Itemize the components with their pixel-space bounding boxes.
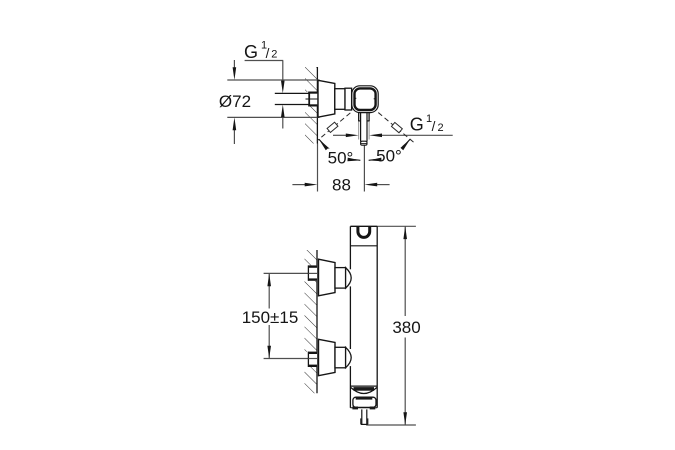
svg-text:88: 88 — [332, 176, 351, 195]
svg-text:/: / — [266, 46, 270, 61]
svg-text:50°: 50° — [328, 149, 354, 168]
svg-text:2: 2 — [438, 122, 444, 134]
svg-text:G: G — [410, 115, 424, 135]
svg-text:2: 2 — [271, 49, 277, 61]
svg-text:380: 380 — [392, 318, 420, 337]
svg-text:G: G — [244, 42, 258, 62]
svg-text:/: / — [432, 119, 436, 134]
svg-text:Ø72: Ø72 — [219, 92, 251, 111]
svg-text:50°: 50° — [376, 146, 402, 165]
svg-text:150±15: 150±15 — [242, 308, 299, 327]
